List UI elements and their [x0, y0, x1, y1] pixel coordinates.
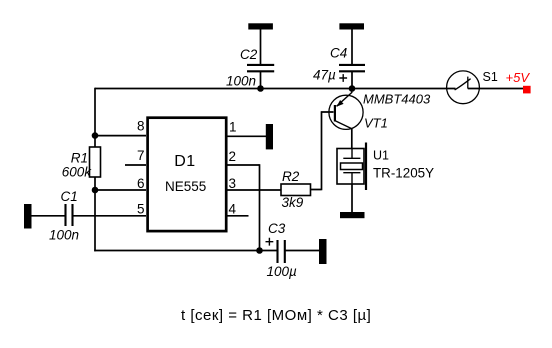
wire pin 3 to R2 [227, 189, 281, 191]
wire R1 bottom down to bottom node rail [94, 177, 96, 251]
svg-text:6: 6 [137, 176, 145, 191]
value label C2 [240, 47, 258, 62]
wire U1 bottom to ground [351, 184, 353, 213]
svg-text:8: 8 [137, 118, 145, 133]
label U1 [373, 149, 389, 163]
wire from rail down to R1 top [94, 88, 96, 147]
capacitor C2 [247, 65, 274, 71]
node junction R1 top / pin 8 [92, 132, 99, 139]
wire bottom node rail (pins 2+6 to C3) [94, 250, 277, 252]
svg-text:3: 3 [229, 176, 237, 191]
wire C2 bottom to rail [260, 72, 262, 89]
plus sign C4 [339, 74, 347, 82]
value label 100n (C1) [49, 228, 79, 243]
svg-text:C1: C1 [61, 189, 78, 204]
wire C1 right plate to pin 5 [73, 215, 146, 217]
svg-text:100µ: 100µ [267, 264, 298, 279]
pin number 4 [229, 202, 237, 217]
svg-text:t [сек] = R1 [МОм] * C3 [µ]: t [сек] = R1 [МОм] * C3 [µ] [181, 307, 371, 324]
svg-text:100n: 100n [226, 74, 256, 89]
pin number 1 [229, 119, 237, 134]
node junction C4 / emitter / rail [349, 85, 356, 92]
node junction R1 bottom / pin 6 [92, 187, 99, 194]
resistor R2 [281, 184, 311, 196]
label MMBT4403 [363, 92, 431, 107]
svg-text:NE555: NE555 [165, 179, 206, 194]
capacitor C1 [66, 204, 73, 226]
node junction pin2 / C3 / bottom rail [256, 247, 263, 254]
svg-text:S1: S1 [483, 70, 498, 84]
plus sign C3 [266, 238, 274, 246]
svg-text:R1: R1 [71, 151, 88, 166]
pin number 6 [137, 176, 145, 191]
svg-text:MMBT4403: MMBT4403 [363, 92, 431, 107]
wire C4 bottom to rail [351, 72, 353, 89]
capacitor C3 polarized [278, 240, 285, 263]
piezo element inside U1 [341, 149, 363, 185]
pin number 2 [229, 149, 237, 164]
wire top rail right segment to terminal [468, 88, 523, 90]
switch lever [455, 79, 471, 90]
transistor emitter with arrow [337, 89, 352, 107]
ground (C1 left) [24, 204, 32, 229]
value label C4 [330, 46, 347, 61]
wire C2 top to ground bar [260, 29, 262, 65]
switch S1 circle [447, 71, 480, 104]
transistor Q1 VT1 circle [329, 95, 363, 129]
wire C4 top to ground bar [351, 29, 353, 65]
wire pin 7 stub [125, 164, 146, 166]
transistor base bar [334, 105, 336, 122]
wire pin 6 [95, 189, 146, 191]
svg-text:1: 1 [229, 119, 237, 134]
wire pin 2 vertical down to bottom node [259, 164, 261, 250]
value label 600k [62, 165, 93, 180]
svg-text:3k9: 3k9 [282, 195, 304, 210]
wire pin 4 stub [227, 215, 249, 217]
value label C1 [61, 189, 78, 204]
ground (pin 1) [266, 124, 273, 149]
pin number 7 [137, 148, 145, 163]
ground (below U1) [340, 212, 365, 218]
wire top +5V rail left segment [95, 88, 456, 90]
wire C3 right plate to ground [286, 250, 320, 252]
svg-text:5: 5 [137, 202, 145, 217]
svg-text:R2: R2 [282, 169, 300, 184]
svg-text:47µ: 47µ [313, 68, 336, 83]
svg-text:U1: U1 [373, 149, 389, 163]
transistor collector [335, 121, 352, 129]
switch contact tick [467, 77, 469, 89]
svg-text:C2: C2 [240, 47, 258, 62]
label +5V [506, 70, 531, 85]
pin number 3 [229, 176, 237, 191]
value label R2 [282, 169, 300, 184]
wire pin 2 horizontal [227, 164, 260, 166]
value label 47µ [313, 68, 336, 83]
label S1 [483, 70, 498, 84]
svg-text:D1: D1 [174, 153, 195, 170]
terminal +5V red square [523, 86, 531, 94]
ground (above C2) [248, 23, 273, 29]
value label R1 [71, 151, 88, 166]
svg-text:C3: C3 [268, 221, 286, 236]
value label 100µ [267, 264, 298, 279]
formula text [181, 307, 371, 324]
wire R2 right to transistor base [311, 112, 334, 190]
svg-text:VT1: VT1 [364, 116, 388, 131]
capacitor C4 polarized [339, 65, 365, 71]
svg-text:7: 7 [137, 148, 145, 163]
svg-text:600k: 600k [62, 165, 93, 180]
pin number 8 [137, 118, 145, 133]
svg-text:+5V: +5V [506, 70, 531, 85]
wire ground to C1 left plate [31, 215, 65, 217]
value label 3k9 [282, 195, 304, 210]
svg-text:100n: 100n [49, 228, 79, 243]
wire pin 8 [95, 135, 146, 137]
wire pin 1 to ground [227, 135, 267, 137]
label D1 [174, 153, 195, 170]
value label 100n (C2) [226, 74, 256, 89]
pin number 5 [137, 202, 145, 217]
label VT1 [364, 116, 388, 131]
sounder U1 body [337, 149, 364, 185]
op-amp D1 IC body NE555 [148, 118, 227, 231]
label TR-1205Y [373, 166, 434, 181]
svg-text:TR-1205Y: TR-1205Y [373, 166, 434, 181]
svg-text:2: 2 [229, 149, 237, 164]
sounder membrane bar [365, 143, 367, 191]
node junction C2 / rail [257, 85, 264, 92]
ground (above C4) [339, 23, 364, 29]
value label C3 [268, 221, 286, 236]
ground (C3 right) [319, 239, 327, 264]
resistor R1 [90, 147, 101, 177]
svg-text:C4: C4 [330, 46, 347, 61]
svg-text:4: 4 [229, 202, 237, 217]
label NE555 [165, 179, 206, 194]
wire collector to U1 [351, 128, 353, 149]
